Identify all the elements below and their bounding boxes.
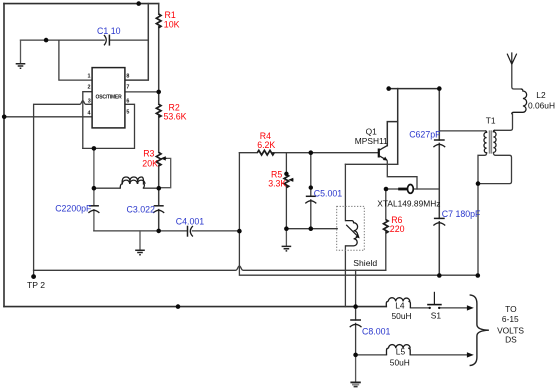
svg-text:1: 1 [88,73,91,79]
inductor L5 [387,348,411,355]
junction C7 bottom on lower rail [437,273,442,278]
svg-text:TO: TO [505,304,517,314]
svg-text:3: 3 [88,98,91,104]
wire: T1 secondary bottom loop [478,153,512,184]
svg-text:50uH: 50uH [392,311,412,321]
junction R5 bottom / ground tap [284,226,289,231]
wire: ground stub G1 [20,40,22,63]
arrow to supply terminal 2 [467,352,474,357]
svg-text:C4.001: C4.001 [176,216,204,226]
arrow to supply terminal 1 [467,305,474,310]
junction R3 bottom node [157,186,162,191]
wire: choke feed row y=164.3 [345,163,397,165]
inductor L2 [512,89,527,114]
junction pin2-6 row / C2 tap [92,146,97,151]
transistor Q1 base bar [378,149,380,158]
wire: pin4 reset to left rail [4,116,92,118]
junction C3 bottom on ground row [156,229,161,234]
inductor L4 [386,301,410,308]
svg-text:4: 4 [88,110,91,116]
wire: pin1 to C1 row [59,40,92,80]
capacitor C3 [154,205,164,207]
junction on bottom rail [176,304,181,309]
svg-text:C3.022: C3.022 [127,204,155,214]
wire: collector riser to tank [387,89,397,165]
svg-text:S1: S1 [431,311,442,321]
wire: C2 branch x=93.9 [93,148,95,231]
svg-text:6: 6 [126,98,129,104]
svg-text:53.6K: 53.6K [164,111,187,121]
wire: C1 row y=40.1 [21,39,149,41]
junction tank rail right [437,86,442,91]
capacitor C8 [350,319,361,321]
wire: base row y=152.7 R4-R5-C5-Q1 [239,152,378,154]
transformer T1 right winding [493,130,496,152]
junction T1 drop on lower rail [476,273,481,278]
svg-text:8: 8 [126,73,129,79]
transformer T1 left winding [484,131,487,153]
wire: TP2 stub [33,270,35,276]
svg-text:0.06uH: 0.06uH [528,100,555,110]
wire: T1 secondary top to L2 [495,114,513,130]
svg-text:6.2K: 6.2K [257,140,275,150]
capacitor C7 [434,217,445,219]
inductor L1 arcs simplified overlay [122,180,145,184]
switch S1 [429,307,431,309]
wire: pin7 to R1/R2 node [125,91,159,93]
wire: RF ground row y=228.7 [286,228,337,230]
wire: T1 primary top row y=130.9 [439,130,485,132]
wire: shield coil top leg x=345.4 [344,164,346,220]
wire: bottom supply rail [4,306,386,308]
wire: top rail to R1 [4,3,159,5]
ground G3 [282,246,292,251]
wire: C6-C7 chain x=439.3 [438,89,440,276]
transformer T1 core [490,130,492,153]
wire: L1 row y=188.2 [94,187,159,189]
ground G1 [16,64,26,68]
wire: emitter drop to crystal right [387,160,417,189]
svg-text:6-15: 6-15 [502,314,519,324]
wire: pin2 down leg x=82.8 [83,92,92,149]
wire: T1 ground drop x=478 [477,184,479,276]
shield inductor coil [345,221,357,246]
wire: ground stub G3 [285,229,287,246]
transistor Q1 collector stroke [379,146,388,151]
svg-text:TP 2: TP 2 [27,280,45,290]
resistor R4 [257,150,274,155]
shield box (dotted) [337,206,365,250]
svg-text:R3: R3 [143,148,154,158]
junction C5 bottom [309,226,314,231]
junction R6/crystal node [384,187,389,192]
potentiometer R5 wiper arrow [290,179,293,181]
junction bottom rail / C8 branch [353,304,358,309]
junction T1 windings bottom [476,181,481,186]
potentiometer R3 [156,152,161,165]
junction C4/R4 node [237,229,242,234]
svg-text:L2: L2 [536,90,546,100]
svg-text:C627pF: C627pF [409,130,441,140]
wire: pin3 output with hop over x=82.8 [34,101,93,271]
capacitor C6 [434,139,445,141]
wire: L5 row y=354.9 [356,354,468,356]
svg-text:10K: 10K [164,20,180,30]
wire: ground row y=230.9 C2 to C4 to node [94,230,240,232]
antenna [507,52,517,64]
svg-text:20K: 20K [142,159,158,169]
junction on top rail [136,1,141,6]
wire: TP2 row y=270.3 with hop over x=239.4 [34,266,386,270]
resistor R2 [156,104,161,117]
capacitor C5 [306,195,316,197]
svg-text:C7 180pF: C7 180pF [442,209,481,219]
junction on C1 row [44,38,49,43]
junction pin7/R2 node [156,90,161,95]
wire: pin8 riser x=148.3 [125,4,148,81]
capacitor C2 [89,205,99,207]
svg-text:DS: DS [505,335,517,345]
svg-text:5: 5 [126,110,129,116]
junction C5 top on base row [309,150,314,155]
wire: C8 to ground G4 [355,355,357,382]
crystal XTAL body [398,188,407,191]
svg-text:T1: T1 [486,116,496,126]
svg-text:C8.001: C8.001 [362,326,390,336]
svg-text:Q1: Q1 [366,127,378,137]
transistor Q1 emitter stroke with arrow [379,156,386,160]
svg-text:C5.001: C5.001 [314,189,342,199]
svg-text:50uH: 50uH [390,357,410,367]
resistor R1 [156,14,161,28]
junction C2/L1 row [92,186,97,191]
capacitor C4 [187,226,189,237]
potentiometer R3 wiper arrow [164,157,167,159]
wire: L4 row to S1 and arrow [410,307,467,309]
IC U1 osc/timer body [92,68,125,128]
wire: R5 branch x=286.4 [285,153,287,229]
junction C8 bottom / L5 row [353,353,358,358]
svg-text:2: 2 [88,84,91,90]
junction pin4/left rail [2,115,7,120]
wire: T1 primary bottom to junction [478,153,487,184]
wire: crystal node row y=189 [386,188,439,190]
svg-text:L5: L5 [396,347,406,357]
terminal dot above R5 [284,172,288,176]
wire: R6 branch x=385.8 [385,189,387,270]
wire: R3 wiper tap [159,158,171,187]
wire: pin6 loop to pin2 [83,104,135,148]
svg-text:L4: L4 [395,300,405,310]
wire: C5 branch x=310.8 [310,153,312,229]
wire: antenna lead into L2 [512,64,521,89]
wire: R1-R2-R3-C3 chain x=158.7 [158,4,160,231]
inductor L1 [120,177,144,188]
wire: ground stub G2 [139,231,141,250]
svg-text:OSC/TIMER: OSC/TIMER [96,95,123,101]
svg-text:7: 7 [126,84,129,90]
svg-text:C1 10: C1 10 [97,26,121,36]
potentiometer R5 [284,175,289,188]
ground G4 [350,381,360,383]
node TP2 terminal [31,274,36,279]
wire: left supply rail [3,4,5,307]
junction tank rail left [386,86,391,91]
wire: shield coil bottom leg to bottom rail [344,246,346,307]
brace to supply [470,295,489,366]
svg-text:3.3K: 3.3K [268,178,286,188]
svg-text:220: 220 [390,224,405,234]
wire: top tank rail y=88.6 [389,88,440,90]
svg-text:XTAL149.89MHz: XTAL149.89MHz [377,199,440,209]
svg-text:Shield: Shield [353,258,377,268]
terminal dot above C5 [309,185,313,189]
svg-text:C2200pF: C2200pF [55,204,92,214]
svg-text:MPSH11: MPSH11 [355,136,388,146]
wire: R4 node down leg and lower rail y=275.2 [239,153,477,276]
shield inductor slug arrow [346,225,357,236]
ground G2 [135,250,145,255]
capacitor C1 [104,35,106,45]
wire: C8 branch x=355.6 [355,270,357,355]
resistor R6 [383,220,388,234]
